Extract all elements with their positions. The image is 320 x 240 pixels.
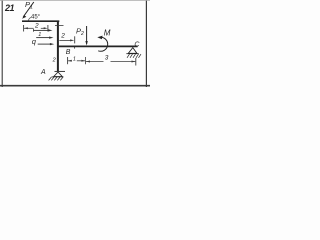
svg-text:3: 3	[105, 54, 109, 61]
svg-text:45°: 45°	[31, 14, 41, 20]
svg-text:M: M	[104, 28, 111, 37]
svg-text:1: 1	[38, 32, 41, 38]
svg-text:B: B	[66, 49, 71, 56]
svg-text:2: 2	[52, 58, 56, 64]
svg-text:21: 21	[4, 3, 15, 13]
svg-text:1: 1	[73, 56, 76, 62]
svg-text:A: A	[40, 69, 46, 76]
svg-text:2: 2	[34, 23, 39, 30]
svg-text:2: 2	[60, 33, 65, 40]
